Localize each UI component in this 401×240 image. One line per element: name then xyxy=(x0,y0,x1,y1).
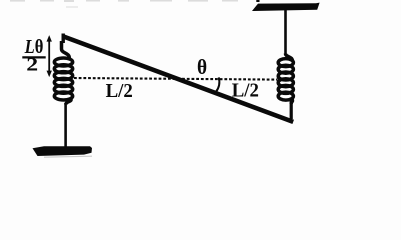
ceiling (top-right wall) xyxy=(252,3,320,11)
spring k2 (right coil) xyxy=(278,54,293,105)
ground (bottom-left wall) xyxy=(33,146,93,156)
scan smudges (decorative) xyxy=(10,0,238,8)
rod right end stub xyxy=(290,101,293,119)
svg-text:L/2: L/2 xyxy=(232,79,259,101)
svg-text:2: 2 xyxy=(26,54,38,75)
wire (ceiling to right spring) xyxy=(284,10,287,54)
equilibrium dashed line xyxy=(74,78,278,80)
svg-text:θ: θ xyxy=(197,56,207,79)
rod (tilted bar) xyxy=(63,36,294,122)
wire (left support rod to ground) xyxy=(64,103,67,148)
angle arc xyxy=(216,77,219,92)
svg-text:L/2: L/2 xyxy=(106,80,133,102)
spring k1 (left coil) xyxy=(54,41,72,105)
rod left end stub xyxy=(62,34,65,44)
label theta xyxy=(197,56,207,79)
displacement double arrow xyxy=(47,35,52,77)
